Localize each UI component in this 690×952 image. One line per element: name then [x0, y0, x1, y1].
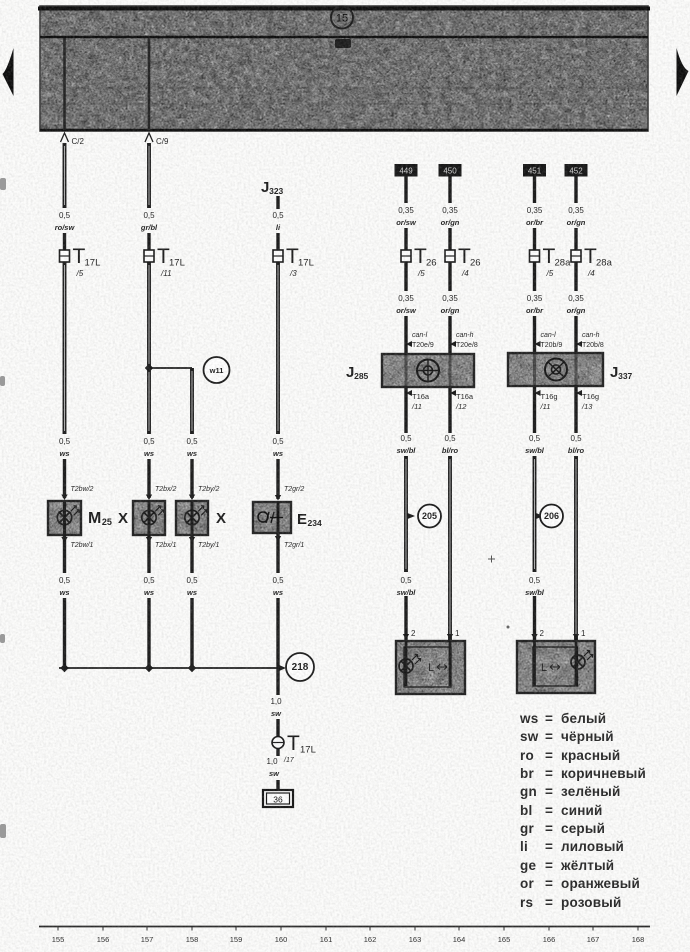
wire below T17L/17: [276, 748, 279, 756]
wire below M25: [63, 535, 66, 573]
ground connection 36: [263, 790, 293, 807]
wires inside J337: [535, 353, 577, 386]
designator L right: [541, 662, 560, 674]
lamp M25 box: [48, 501, 81, 535]
junction rail wire: [59, 667, 278, 669]
wire T17L/3 to E234: [276, 262, 280, 434]
bottom scale ticks: [58, 927, 638, 931]
pin arrow into X lamp right: [189, 495, 195, 501]
pin arrow T16g/13: [576, 390, 582, 396]
continuation arrow column 1: [61, 133, 69, 142]
designator J323: [261, 179, 284, 196]
wire column 7 from ref box: [533, 177, 536, 204]
pin arrow into lamp box: [403, 634, 409, 640]
reference box 450: [439, 164, 462, 177]
connector label T17L/3: [286, 245, 314, 278]
connector T28a/5: [530, 250, 540, 262]
connector T26/5: [401, 250, 411, 262]
wire column 6 to lamp box: [448, 456, 452, 640]
wire into X lamp right: [190, 459, 193, 498]
designator J285: [346, 364, 369, 381]
wire column 6 below control unit: [448, 387, 451, 433]
connector T28a/4: [571, 250, 581, 262]
node 206 circle: [540, 505, 563, 528]
wire to ground 36: [276, 780, 279, 791]
connector label T28a/5: [543, 245, 572, 278]
pin arrow T16g/11: [535, 390, 541, 396]
wire M25 to junction: [63, 598, 66, 668]
junction column 1 rail: [60, 664, 68, 672]
control unit J337 box: [508, 353, 603, 386]
lamp box X left: [133, 501, 165, 535]
bus line 30 (top): [38, 7, 650, 11]
connector T17L/17: [272, 737, 284, 749]
pin label T16g/11: [540, 392, 558, 411]
pin arrow into lamp box: [573, 634, 579, 640]
wire to T17L/3: [276, 233, 279, 250]
reference box 451: [523, 164, 546, 177]
arrow to circle 206: [536, 513, 544, 519]
lamp symbol in X right box: [185, 506, 207, 525]
wire X left to junction: [147, 598, 150, 668]
wire column 8 below T28a: [574, 262, 577, 291]
connector label T17L/11: [157, 245, 185, 278]
wire into X lamp left: [147, 459, 150, 498]
bus line 15 (second): [40, 36, 648, 38]
arrow to circle 205: [408, 513, 416, 519]
wires inside J285: [406, 354, 450, 387]
wire w11 branch down: [190, 368, 194, 434]
band bottom edge: [40, 129, 648, 132]
pin arrow T16a/12: [450, 390, 456, 396]
designator M25: [88, 510, 112, 527]
wire column 7 below control unit: [533, 387, 536, 433]
pin label T16a/12: [455, 392, 474, 411]
wire into M25: [63, 459, 66, 498]
wire below X left: [147, 535, 150, 573]
lamp symbol left box: [399, 654, 421, 673]
pin arrow T20e/9: [406, 341, 412, 347]
pin arrow T20b/8: [576, 341, 582, 347]
control unit J285 box: [382, 354, 474, 387]
wire column 5 from ref box: [404, 177, 407, 204]
lamp unit L right box: [517, 641, 595, 693]
symbol in E234: [258, 511, 283, 524]
wire to T17L/5: [63, 233, 66, 250]
wire column 7 to control unit: [533, 316, 536, 355]
node 218 circle: [286, 653, 314, 681]
pin arrow into M25: [61, 495, 67, 501]
wire to T17L/17: [276, 719, 279, 736]
wire inside E234 box: [277, 502, 280, 533]
pin arrow T16a/11: [406, 390, 412, 396]
bus bar band (terminal 15 supply): [40, 6, 648, 131]
pin arrow below X left: [146, 537, 152, 543]
symbol in J337: [545, 359, 567, 381]
wire column 5 mid: [404, 456, 408, 572]
wire column 7 mid: [533, 456, 537, 572]
lamp box X right: [176, 501, 208, 535]
bus 15 connection blob: [335, 39, 351, 48]
pin label can-h T20e/8: [456, 332, 478, 349]
node 205 circle: [418, 505, 441, 528]
connector label T26/4: [458, 245, 481, 278]
connector label T17L/5: [73, 245, 101, 278]
wire column 6 from ref box: [448, 177, 451, 204]
pin arrow T20b/9: [535, 341, 541, 347]
wire column 8 to lamp box: [574, 456, 578, 640]
connector T17L/5: [60, 250, 70, 262]
inner frame right lamp box: [533, 647, 578, 686]
wire junction to column 3: [149, 367, 192, 369]
wire inside left lamp box col6: [449, 641, 452, 686]
wire column 8 to control unit: [574, 316, 577, 355]
left page arrow: [3, 48, 14, 96]
pin arrow into lamp box: [447, 634, 453, 640]
wire column 8 below control unit: [574, 387, 577, 433]
lamp symbol in X left box: [142, 506, 164, 525]
connector label T28a/4: [584, 245, 613, 278]
pin label T16a/11: [411, 392, 430, 411]
designator L left: [428, 662, 447, 674]
pin arrow into E234: [275, 495, 281, 501]
colour code legend: [519, 711, 646, 910]
wire X right to junction: [190, 598, 193, 668]
wire column 5 to control unit: [404, 316, 407, 355]
wire inside right lamp box col7: [533, 641, 536, 686]
wire E234 to junction: [276, 598, 279, 668]
pin label can-h T20b/8: [582, 332, 604, 349]
wire column 8 to T28a: [574, 228, 577, 250]
wire column 7 to T28a: [533, 228, 536, 250]
wire column 5 to lamp box: [404, 596, 407, 640]
wire T17L/11 down: [147, 262, 151, 434]
wire junction down: [276, 668, 279, 695]
wire below X right: [190, 535, 193, 573]
connector label T17L/17: [287, 732, 316, 756]
wire inside left lamp box col5: [405, 641, 408, 686]
pin label T16g/13: [581, 392, 599, 411]
pin arrow below M25: [61, 537, 67, 543]
pin arrow into lamp box: [531, 634, 537, 640]
wire inside M25 box: [63, 501, 66, 535]
wire T17L/5 to M25: [63, 262, 67, 434]
terminal 15 circle label: [331, 7, 353, 29]
bottom scale line: [39, 926, 650, 928]
wire to T17L/11: [147, 233, 150, 250]
wire into E234: [276, 459, 279, 499]
wire 0,5 gr/bl upper: [147, 143, 151, 208]
wire inside X left box: [148, 501, 151, 535]
wire column 7 below T28a: [533, 262, 536, 291]
pin label can-l T20b/9: [541, 332, 563, 349]
wire T column 2 inside band: [148, 38, 151, 130]
connector T26/4: [445, 250, 455, 262]
node w11 circle: [204, 357, 230, 383]
junction column 2 rail: [145, 664, 153, 672]
wire column 6 to T26: [448, 228, 451, 250]
junction column 3 rail: [188, 664, 196, 672]
arrow to circle 218: [279, 665, 286, 671]
pin arrow below X right: [189, 537, 195, 543]
reference box 449: [395, 164, 418, 177]
wire below E234: [276, 533, 279, 573]
symbol in J285: [417, 360, 439, 382]
pin arrow T20e/8: [450, 341, 456, 347]
wire column 8 from ref box: [574, 177, 577, 204]
wire column 6 below T26: [448, 262, 451, 291]
connector label T26/5: [414, 245, 437, 278]
lamp symbol right box: [571, 650, 593, 669]
wire stub from J323: [276, 196, 279, 209]
inner frame left lamp box: [404, 647, 451, 687]
lamp symbol in M25: [57, 506, 79, 525]
wire column 5 below control unit: [404, 387, 407, 433]
scan speck marks: [488, 556, 510, 629]
continuation arrow column 2: [145, 133, 153, 142]
wire T column 1 inside band: [63, 38, 66, 130]
designator E234: [297, 511, 322, 528]
wire column 5 to T26: [404, 228, 407, 250]
connector T17L/11: [144, 250, 154, 262]
wire column 5 below T26: [404, 262, 407, 291]
switch E234 box: [253, 502, 291, 533]
pin label can-l T20e/9: [412, 332, 434, 349]
designator J337: [610, 364, 633, 381]
right page arrow: [677, 48, 689, 96]
lamp unit L left box: [396, 641, 465, 694]
scan artifacts left edge: [0, 178, 6, 838]
pin arrow into X lamp left: [146, 495, 152, 501]
pin arrow below E234: [275, 536, 281, 542]
wire column 6 to control unit: [448, 316, 451, 355]
wire column 7 to lamp box: [533, 596, 536, 640]
junction column 2: [145, 364, 153, 372]
reference box 452: [565, 164, 588, 177]
wire 0,5 ro/sw upper: [63, 143, 67, 208]
connector T17L/3: [273, 250, 283, 262]
wire inside right lamp box col8: [575, 641, 578, 686]
wire inside X right box: [191, 501, 194, 535]
